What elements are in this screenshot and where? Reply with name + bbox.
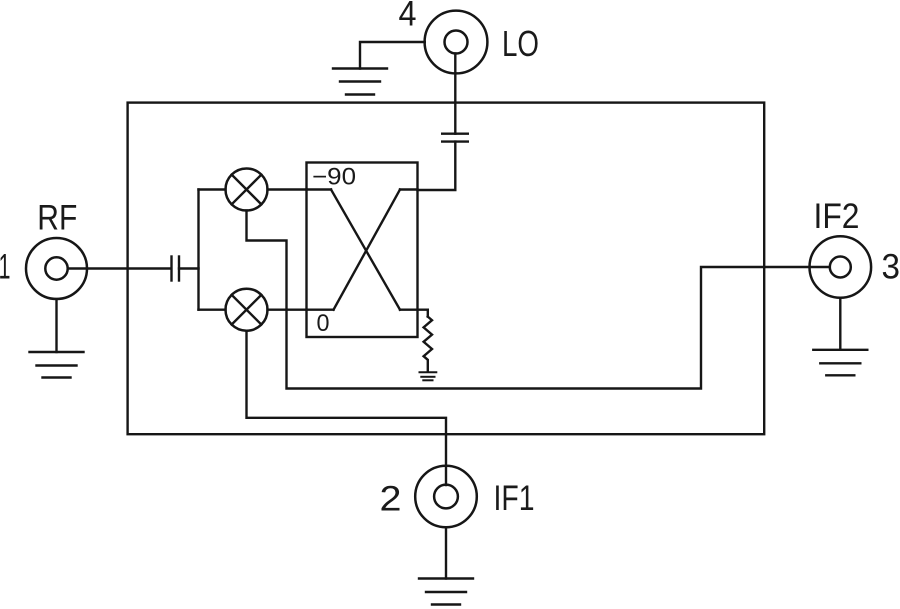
capacitor C1 (series, RF input) xyxy=(172,257,180,281)
ground (RF) xyxy=(30,352,84,378)
svg-text:0: 0 xyxy=(317,310,330,337)
mixer U2 xyxy=(226,289,268,331)
svg-text:RF: RF xyxy=(37,199,77,238)
svg-text:LO: LO xyxy=(502,23,539,64)
wire RF shell to ground xyxy=(55,299,57,352)
svg-text:1: 1 xyxy=(0,248,11,287)
connector J4 (LO) xyxy=(425,11,488,74)
svg-text:IF2: IF2 xyxy=(814,197,860,236)
wire mixer U2 to hybrid 0 port xyxy=(268,309,307,311)
connector J2 (IF1) xyxy=(415,466,477,528)
ground (IF1) xyxy=(419,579,473,605)
wire LO shell to ground xyxy=(360,42,425,69)
resistor R1 (hybrid termination) xyxy=(424,317,432,371)
wire RF input xyxy=(68,267,171,269)
wire hybrid -90 port to LO coupling xyxy=(418,142,456,190)
svg-text:2: 2 xyxy=(380,480,402,519)
wire hybrid 0 port to termination xyxy=(400,310,428,317)
wire mixer U1 IF output to IF2 xyxy=(247,211,830,389)
ground (R1) xyxy=(420,372,437,380)
connector J1 (RF) xyxy=(26,238,87,299)
wire RF splitter branch xyxy=(179,190,226,310)
connector J3 (IF2) xyxy=(810,236,872,298)
quadrature hybrid U3 xyxy=(307,163,418,338)
svg-text:IF1: IF1 xyxy=(494,479,535,518)
wire mixer U2 IF output to IF1 xyxy=(247,331,447,485)
capacitor C2 (series, LO) xyxy=(442,134,468,142)
wire mixer U1 to hybrid -90 port xyxy=(268,188,307,190)
enclosure box xyxy=(128,103,765,435)
wire IF1 shell to ground xyxy=(445,527,447,578)
ground (LO) xyxy=(333,69,387,95)
mixer U1 xyxy=(226,169,268,211)
svg-text:−90: −90 xyxy=(312,164,356,191)
svg-text:3: 3 xyxy=(882,248,900,287)
wire LO pin xyxy=(454,54,456,134)
wire IF2 shell to ground xyxy=(839,298,841,350)
svg-text:4: 4 xyxy=(399,0,417,34)
ground (IF2) xyxy=(813,350,867,376)
